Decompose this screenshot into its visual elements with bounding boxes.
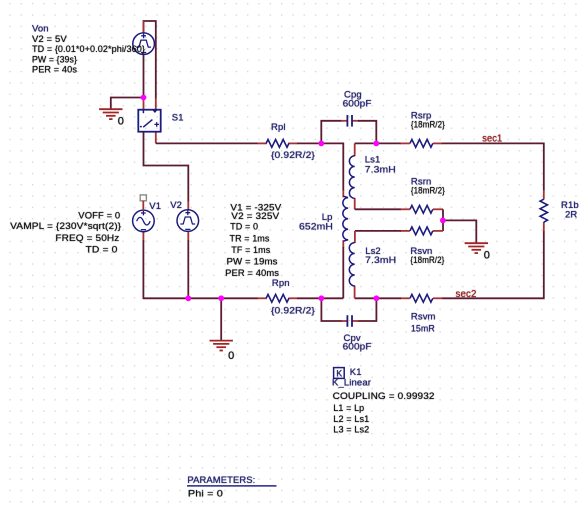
inductor Lp <box>343 196 348 241</box>
svg-text:L1 = Lp: L1 = Lp <box>333 403 364 414</box>
svg-text:Phi = 0: Phi = 0 <box>188 489 223 500</box>
no-connect pin marker V1 <box>140 195 146 201</box>
svg-text:7.3mH: 7.3mH <box>365 255 396 266</box>
wire V2 bottom pin stub <box>187 231 189 240</box>
svg-text:sec2: sec2 <box>456 289 477 300</box>
wire Rsrn left pin stub <box>401 208 410 210</box>
svg-text:L2 = Ls1: L2 = Ls1 <box>333 414 369 425</box>
svg-text:15mR: 15mR <box>411 324 435 335</box>
svg-text:V1: V1 <box>149 201 161 212</box>
svg-text:{18mR/2}: {18mR/2} <box>410 255 444 266</box>
wire Von loop top <box>144 21 156 99</box>
svg-text:{0.92R/2}: {0.92R/2} <box>271 306 315 317</box>
wire Rsvn left pin stub <box>401 230 410 232</box>
wire V2 bottom to rail <box>187 240 189 298</box>
wire junction to S1 top-left pin <box>143 98 145 111</box>
capacitor Cpg <box>347 115 352 127</box>
junction node sec-mid <box>440 218 446 224</box>
resistor Rsvm <box>410 294 433 302</box>
ground 0 at sources rail <box>210 341 233 351</box>
svg-text:sec1: sec1 <box>482 134 502 145</box>
resistor Rpl <box>266 140 289 148</box>
wire Ls1 bottom pin stub <box>354 198 356 209</box>
wire Ls1 to Rsrn <box>355 208 401 210</box>
wire node sec-top to Rsrp <box>355 142 401 144</box>
ground 0 near S1 <box>99 109 122 119</box>
wire Ls2 top pin stub <box>354 231 356 243</box>
wire node sec-bot down to Cpv <box>358 298 376 321</box>
wire node prim-top to Lp top <box>321 143 343 190</box>
wire ground G1 stem <box>110 97 112 110</box>
wire S1 bottom-left to V2 top <box>144 131 189 201</box>
svg-text:TD = 0: TD = 0 <box>86 245 118 256</box>
svg-text:TD = 0: TD = 0 <box>230 221 258 232</box>
voltage source V2 (VPULSE) <box>177 210 199 232</box>
wire R1b top pin stub <box>543 190 545 199</box>
wire Lp bottom to prim-bot rail <box>342 247 344 298</box>
wire S1 right pin from top rail <box>155 98 157 110</box>
junction node V2-rail <box>185 295 191 301</box>
svg-text:PER = 40s: PER = 40s <box>32 65 77 76</box>
inductor Ls1 <box>349 156 354 198</box>
wire V2 top pin stub <box>187 201 189 210</box>
wire Cpg left pin stub <box>341 120 347 122</box>
svg-text:0: 0 <box>118 116 124 128</box>
wire V1 bottom pin stub <box>142 231 144 240</box>
voltage source V1 (VSIN) <box>133 210 155 232</box>
svg-text:0: 0 <box>228 350 234 362</box>
svg-text:COUPLING = 0.99932: COUPLING = 0.99932 <box>333 391 435 402</box>
wire Rpn to node prim-bot <box>297 297 343 299</box>
svg-text:2R: 2R <box>565 210 577 221</box>
svg-text:VOFF = 0: VOFF = 0 <box>78 210 120 221</box>
wire R1b bottom pin stub <box>543 222 545 232</box>
svg-text:K_Linear: K_Linear <box>332 377 371 388</box>
wire Rpl right pin stub <box>288 142 297 144</box>
wire node sec-mid to ground G3 <box>443 220 476 243</box>
wire Lp bottom pin stub <box>342 240 344 247</box>
wire Rpl left pin stub <box>258 142 267 144</box>
svg-text:V2 = 325V: V2 = 325V <box>231 211 280 222</box>
wire Lp top pin stub <box>342 190 344 197</box>
svg-text:{18mR/2}: {18mR/2} <box>411 186 445 197</box>
svg-text:L3 = Ls2: L3 = Ls2 <box>333 425 369 436</box>
svg-text:TR = 1ms: TR = 1ms <box>230 233 270 244</box>
wire Rpl to node prim-top <box>297 142 321 144</box>
wire Von top pin stub <box>143 21 145 33</box>
wire Cpv left pin stub <box>341 320 347 322</box>
svg-text:600pF: 600pF <box>343 99 372 110</box>
svg-text:7.3mH: 7.3mH <box>365 165 396 176</box>
switch S1 <box>138 110 160 132</box>
wire Rsvn to Ls2 top <box>355 230 401 232</box>
resistor Rsvn <box>410 227 433 235</box>
svg-text:PW = 19ms: PW = 19ms <box>227 256 278 267</box>
wire junction to ground branch <box>111 97 144 99</box>
svg-text:FREQ = 50Hz: FREQ = 50Hz <box>55 233 119 244</box>
wire Rsrn-Rsvn right vertical <box>442 209 444 231</box>
svg-text:Rpl: Rpl <box>271 122 286 133</box>
wire Rsrn right pin stub <box>433 208 443 210</box>
wire Cpv right pin stub <box>352 320 358 322</box>
resistor Rsrn <box>410 205 433 213</box>
resistor R1b <box>540 199 547 222</box>
wire rail to ground G2 stem <box>220 298 222 340</box>
junction node prim-top <box>318 141 324 147</box>
voltage source Von (VPULSE) <box>133 33 155 55</box>
wire Rsrp left pin stub <box>401 142 410 144</box>
resistor Rpn <box>266 294 289 302</box>
wire Rsvn right pin stub <box>433 230 443 232</box>
wire V1 bottom to rail <box>142 240 144 299</box>
wire Rpn right pin stub <box>288 297 297 299</box>
wire R1b bottom to sec2 rail <box>442 231 544 298</box>
wire S1 to Rpl <box>156 142 258 144</box>
svg-text:Rpn: Rpn <box>272 278 290 289</box>
svg-text:VAMPL = {230V*sqrt(2)}: VAMPL = {230V*sqrt(2)} <box>10 221 121 232</box>
parameters underline <box>187 485 277 487</box>
wire Cpg to node sec-top <box>358 121 376 144</box>
junction node A (Von/S1/ground) <box>141 95 147 101</box>
svg-text:V2: V2 <box>170 200 182 211</box>
wire Cpv to node prim-bot <box>321 298 341 321</box>
wire Cpg right pin stub <box>352 120 358 122</box>
ground 0 at secondary mid <box>465 243 488 253</box>
wire Ls1 top pin stub <box>354 143 356 156</box>
svg-text:PARAMETERS:: PARAMETERS: <box>187 475 255 486</box>
wire Rsrp right pin stub <box>433 142 442 144</box>
wire prim-bot rail <box>143 297 258 299</box>
svg-text:Von: Von <box>32 23 49 34</box>
inductor Ls2 <box>349 243 354 286</box>
wire V1 top pin stub <box>142 201 144 211</box>
wire sec1 net to R1b top <box>442 143 544 190</box>
wire S1 bottom-right pin <box>155 131 157 143</box>
wire Rpn left pin stub <box>258 297 267 299</box>
junction node rail-ground <box>218 295 224 301</box>
svg-text:S1: S1 <box>172 112 184 123</box>
wire Rsvm right pin stub <box>433 297 443 299</box>
junction node sec-bot <box>374 295 380 301</box>
svg-text:TF = 1ms: TF = 1ms <box>231 245 270 256</box>
resistor Rsrp <box>410 140 433 148</box>
svg-text:{18mR/2}: {18mR/2} <box>411 120 445 131</box>
svg-text:{0.92R/2}: {0.92R/2} <box>271 150 315 161</box>
junction node prim-bot <box>319 295 325 301</box>
svg-text:600pF: 600pF <box>343 342 372 353</box>
wire Rsvm to Ls2 bottom node <box>355 297 401 299</box>
capacitor Cpv <box>347 315 352 327</box>
svg-text:652mH: 652mH <box>299 222 333 233</box>
coupling symbol K1 box <box>334 368 345 379</box>
wire Rsvm left pin stub <box>401 297 410 299</box>
wire Von source to junction <box>143 54 145 98</box>
svg-text:0: 0 <box>484 249 490 261</box>
wire Ls2 bottom pin stub <box>354 286 356 299</box>
junction node sec-top <box>373 141 379 147</box>
wire node prim-top up to Cpg <box>321 121 341 144</box>
svg-text:Rsvm: Rsvm <box>411 312 436 323</box>
